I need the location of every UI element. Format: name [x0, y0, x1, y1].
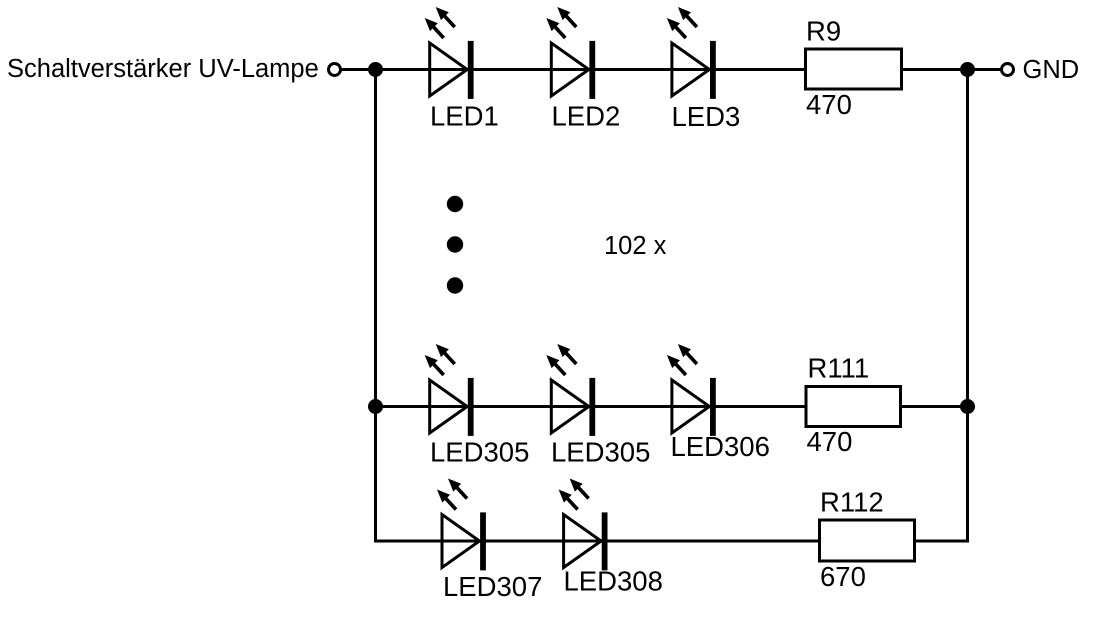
junction row2 right [960, 399, 975, 414]
svg-text:LED2: LED2 [552, 101, 621, 132]
svg-text:LED1: LED1 [430, 101, 499, 132]
LED LED305 (second) [546, 344, 595, 436]
resistor R9 [806, 49, 902, 89]
svg-text:R112: R112 [820, 487, 884, 518]
terminal GND [1002, 64, 1014, 76]
svg-text:LED3: LED3 [672, 101, 741, 132]
svg-text:LED307: LED307 [443, 571, 542, 602]
LED LED307 [437, 479, 486, 571]
svg-text:470: 470 [806, 89, 852, 120]
ellipsis dot 3 [447, 277, 463, 293]
svg-text:470: 470 [807, 426, 853, 457]
junction row2 left [368, 399, 383, 414]
LED LED305 (first) [425, 344, 474, 436]
svg-text:R9: R9 [806, 16, 841, 47]
svg-text:LED305: LED305 [430, 437, 529, 468]
svg-text:LED306: LED306 [671, 431, 770, 462]
svg-text:GND: GND [1023, 56, 1080, 84]
ellipsis dot 2 [447, 236, 463, 252]
svg-text:R111: R111 [808, 353, 870, 384]
junction row1 left [368, 62, 383, 77]
svg-text:LED308: LED308 [564, 566, 663, 597]
wire row2 horizontal [376, 405, 968, 408]
wire row1 horizontal [342, 68, 1001, 71]
svg-text:LED305: LED305 [551, 437, 650, 468]
LED LED308 [559, 479, 608, 571]
resistor R112 [820, 520, 915, 561]
svg-text:670: 670 [820, 561, 866, 592]
svg-text:Schaltverstärker UV-Lampe: Schaltverstärker UV-Lampe [7, 55, 319, 83]
resistor R111 [806, 387, 901, 427]
LED LED3 [667, 7, 716, 99]
wire row3 horizontal [376, 540, 968, 543]
wire right bus vertical [966, 70, 969, 543]
LED LED306 [667, 344, 716, 436]
ellipsis dot 1 [447, 196, 463, 212]
wire left bus vertical [374, 70, 377, 543]
LED LED2 [546, 7, 595, 99]
LED LED1 [425, 7, 474, 99]
svg-text:102 x: 102 x [604, 232, 667, 260]
terminal input port [329, 64, 341, 76]
junction row1 right [960, 62, 975, 77]
